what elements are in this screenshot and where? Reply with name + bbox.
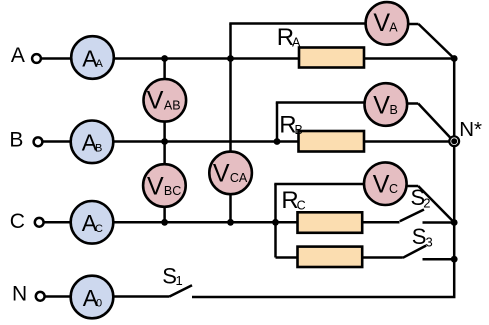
junction bus / S3 — [451, 256, 458, 263]
voltmeter VB — [365, 83, 408, 126]
wire row A main — [114, 57, 454, 60]
svg-text:B: B — [390, 103, 398, 117]
svg-text:N*: N* — [459, 118, 482, 141]
wire VC right stub — [407, 185, 418, 188]
wire terminal C to ammeter AC — [44, 221, 71, 224]
svg-text:2: 2 — [423, 195, 430, 210]
junction bus / S2 — [451, 219, 458, 226]
wire top branch to VA — [229, 22, 366, 25]
svg-text:V: V — [373, 91, 390, 119]
wire VC diagonal to bus — [418, 186, 454, 223]
wire VB branch riser x=277 — [276, 103, 279, 142]
svg-text:V: V — [213, 160, 230, 188]
wire right bus with bottom corner — [192, 59, 454, 298]
svg-text:A: A — [389, 21, 398, 35]
svg-text:C: C — [297, 199, 306, 213]
svg-text:BC: BC — [164, 184, 181, 198]
junction row A / bus — [451, 55, 458, 62]
svg-text:V: V — [373, 171, 390, 199]
junction row C / VCA — [227, 219, 234, 226]
switch S1 blade — [170, 285, 193, 296]
ammeter A0 — [71, 276, 114, 319]
svg-text:C: C — [95, 223, 103, 235]
svg-text:A: A — [11, 44, 25, 67]
svg-text:CA: CA — [230, 171, 248, 185]
terminal A — [32, 54, 41, 63]
resistor RC — [281, 187, 362, 233]
wire VB branch horizontal — [276, 101, 365, 104]
svg-text:A: A — [292, 36, 301, 50]
switch S2 blade — [400, 210, 424, 222]
svg-text:3: 3 — [426, 235, 433, 250]
junction row B / VAB — [161, 138, 168, 145]
node N* — [449, 118, 482, 146]
wire VC branch horizontal — [274, 183, 365, 186]
wire S3 branch horizontal — [276, 256, 403, 259]
terminal C — [35, 218, 44, 227]
svg-text:N: N — [12, 283, 27, 306]
wire terminal B to ammeter AB — [43, 140, 71, 143]
resistor RB — [279, 111, 364, 151]
svg-text:A: A — [96, 58, 104, 70]
junction row C / VC branch — [272, 219, 279, 226]
junction row C / VBC — [161, 219, 168, 226]
switch S3 blade — [403, 246, 426, 258]
wire VC branch riser x=275.5 — [274, 184, 277, 258]
switch S3 fixed contact — [423, 258, 455, 261]
voltmeter VCA — [209, 152, 252, 195]
svg-text:B: B — [295, 123, 303, 137]
junction row A / VAB riser — [161, 55, 168, 62]
junction row A / VCA riser — [227, 55, 234, 62]
svg-text:V: V — [373, 9, 390, 37]
svg-text:C: C — [389, 182, 398, 196]
resistor RA — [277, 24, 364, 68]
voltmeter VA — [366, 2, 409, 45]
voltmeter VC — [364, 162, 407, 205]
svg-text:1: 1 — [176, 273, 183, 288]
svg-text:C: C — [10, 210, 25, 233]
wire VA diagonal to bus — [419, 24, 455, 59]
wire row C main — [114, 221, 400, 224]
wire VB diagonal to node N* — [418, 104, 452, 140]
wire riser VAB/VBC x=164.6 — [163, 59, 166, 223]
wire row N to switch S1 — [113, 295, 170, 298]
svg-text:0: 0 — [96, 298, 102, 310]
svg-text:AB: AB — [164, 98, 181, 112]
wire terminal N to ammeter A0 — [45, 295, 71, 298]
voltmeter VAB — [144, 79, 187, 122]
ammeter AA — [71, 36, 114, 79]
terminal N — [36, 292, 45, 301]
svg-text:B: B — [9, 129, 23, 152]
voltmeter VBC — [143, 164, 186, 207]
wire riser VCA x=230.5 — [229, 24, 232, 223]
svg-text:B: B — [95, 142, 102, 154]
wire row B main — [114, 140, 451, 143]
terminal B — [34, 137, 43, 146]
wire VA right stub — [408, 23, 419, 26]
ammeter AC — [71, 201, 114, 244]
wire terminal A to ammeter AA — [41, 57, 71, 60]
wire VB right stub — [408, 102, 419, 105]
svg-text:V: V — [147, 87, 164, 115]
resistor S3 branch — [298, 247, 363, 267]
switch S2 fixed contact — [423, 221, 455, 224]
svg-text:S: S — [412, 224, 427, 249]
junction row B / VB branch — [274, 138, 281, 145]
svg-text:V: V — [147, 172, 164, 200]
ammeter AB — [71, 121, 114, 164]
